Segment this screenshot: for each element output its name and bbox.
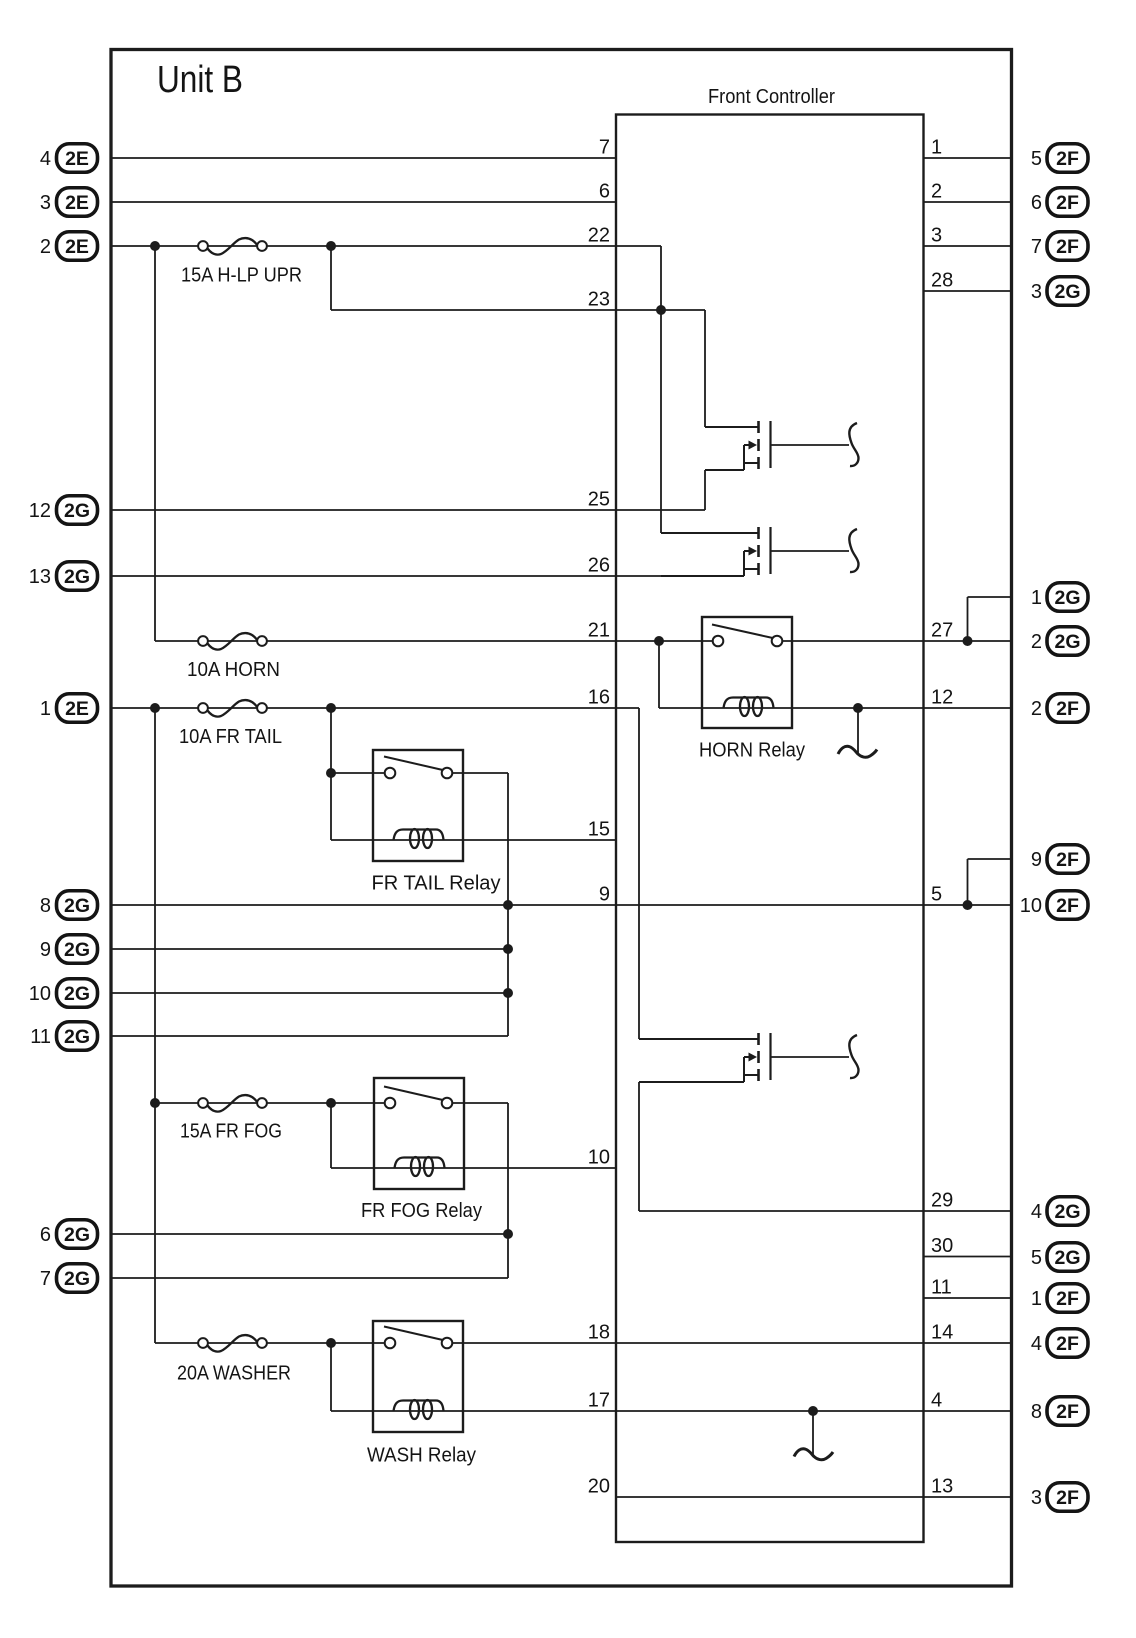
- svg-text:8: 8: [40, 895, 51, 917]
- svg-text:2E: 2E: [65, 192, 89, 214]
- svg-text:5: 5: [931, 884, 942, 906]
- ground stub below wire12: [857, 708, 859, 753]
- junction 9-2G / bus 508: [503, 944, 513, 954]
- relay K4 coil line pin17/pin4 to 8-2F: [331, 1410, 1012, 1412]
- relay K1 HORN Relay box: [702, 617, 792, 728]
- svg-text:2G: 2G: [64, 1224, 90, 1246]
- wire pin6 from 3-2E: [111, 201, 616, 203]
- svg-text:13: 13: [931, 1476, 953, 1498]
- load squiggle at Q3 gate: [849, 1035, 858, 1078]
- relay K4 WASH Relay box: [373, 1321, 463, 1432]
- transistor Q1 (MOSFET): [705, 426, 759, 428]
- svg-text:3: 3: [931, 225, 942, 247]
- svg-text:2: 2: [1031, 698, 1042, 720]
- wire pin12 external to 2-2F: [924, 707, 1012, 709]
- junction 6-2G / bus 508: [503, 1229, 513, 1239]
- svg-text:10: 10: [29, 983, 51, 1005]
- wire FR TAIL switch out: [452, 772, 508, 774]
- wire drop bus 508 from FR TAIL switch: [507, 773, 509, 1036]
- wire from 11-2G: [111, 1035, 508, 1037]
- wire pin21 fuse side: [155, 640, 713, 642]
- svg-text:2G: 2G: [64, 1268, 90, 1290]
- wire riser 705 Q1 source to pin25: [704, 470, 706, 510]
- svg-text:2G: 2G: [1054, 1247, 1080, 1269]
- svg-text:2F: 2F: [1056, 849, 1079, 871]
- svg-text:10: 10: [588, 1147, 610, 1169]
- wire pin25 from 12-2G: [111, 509, 705, 511]
- svg-text:9: 9: [40, 939, 51, 961]
- svg-text:2F: 2F: [1056, 698, 1079, 720]
- fuse F4 15A FR FOG: [208, 1095, 258, 1112]
- svg-text:26: 26: [588, 555, 610, 577]
- svg-text:2: 2: [931, 181, 942, 203]
- relay K4 switch: [384, 1327, 445, 1341]
- svg-text:7: 7: [1031, 236, 1042, 258]
- wire riser 331 to pin23: [330, 246, 332, 310]
- svg-text:2E: 2E: [65, 236, 89, 258]
- svg-text:FR FOG Relay: FR FOG Relay: [361, 1200, 482, 1222]
- svg-text:3: 3: [1031, 281, 1042, 303]
- junction on wire 22 at fuse feed: [150, 241, 160, 251]
- svg-text:10: 10: [1020, 895, 1042, 917]
- junction wire27 branch to 1-2G: [963, 636, 973, 646]
- svg-text:16: 16: [588, 687, 610, 709]
- wire riser 331 to WASH coil: [330, 1343, 332, 1411]
- junction wire23 / riser-661: [656, 305, 666, 315]
- Front Controller box U1: [616, 115, 924, 1543]
- svg-text:2F: 2F: [1056, 1487, 1079, 1509]
- svg-text:Unit B: Unit B: [157, 59, 243, 101]
- wire from 6-2G: [111, 1233, 508, 1235]
- svg-text:22: 22: [588, 225, 610, 247]
- wire to 1-2G: [968, 596, 1012, 598]
- wire riser 661 from pin22 to Q2 drain: [660, 246, 662, 533]
- relay K1 coil line to pin12: [659, 707, 924, 709]
- wire pin9/pin5 through controller from 8-2G: [111, 904, 1012, 906]
- svg-text:9: 9: [1031, 849, 1042, 871]
- wire to 9-2F: [968, 858, 1012, 860]
- wire pin26 from 13-2G to Q2 source: [111, 575, 744, 577]
- wire pin1 to 5-2F: [924, 157, 1012, 159]
- wire riser 638 from wire16 to Q3 drain: [638, 708, 640, 1039]
- junction 10-2G / bus 508: [503, 988, 513, 998]
- svg-text:2G: 2G: [64, 895, 90, 917]
- svg-text:2F: 2F: [1056, 148, 1079, 170]
- wire FR TAIL switch feed: [331, 772, 384, 774]
- relay K3 switch: [384, 1087, 445, 1101]
- svg-text:23: 23: [588, 289, 610, 311]
- svg-text:2F: 2F: [1056, 1401, 1079, 1423]
- wire pin28 to 3-2G: [924, 290, 1012, 292]
- svg-text:17: 17: [588, 1390, 610, 1412]
- svg-text:1: 1: [1031, 587, 1042, 609]
- wire vertical feed bus 1-2E: [154, 708, 156, 1343]
- wire pin30 to 5-2G: [924, 1256, 1012, 1258]
- wire riser 638 Q3 source to pin29: [638, 1082, 640, 1211]
- relay K2 coil: [394, 830, 444, 841]
- wire pin16 from 1-2E through fuse: [111, 707, 639, 709]
- svg-text:Front Controller: Front Controller: [708, 86, 835, 108]
- wire pin20/pin13 to 3-2F: [616, 1496, 1012, 1498]
- svg-text:4: 4: [931, 1390, 942, 1412]
- load squiggle at Q1 gate: [849, 423, 858, 466]
- svg-text:15A H-LP UPR: 15A H-LP UPR: [181, 265, 302, 287]
- wire FR FOG switch out: [452, 1102, 508, 1104]
- junction wire17 ground branch: [808, 1406, 818, 1416]
- wire drop bus 508 from FR FOG switch: [507, 1103, 509, 1278]
- junction FR FOG branch to coil: [326, 1098, 336, 1108]
- fuse F5 20A WASHER: [208, 1335, 258, 1352]
- svg-text:21: 21: [588, 620, 610, 642]
- transistor Q2 (MOSFET): [661, 532, 759, 534]
- relay K3 coil: [395, 1158, 445, 1169]
- relay K1 coil: [724, 698, 774, 709]
- svg-text:2F: 2F: [1056, 895, 1079, 917]
- wire pin11 to 1-2F: [924, 1297, 1012, 1299]
- wire riser 331 to FR FOG coil: [330, 1103, 332, 1168]
- svg-text:6: 6: [1031, 192, 1042, 214]
- wire vertical bus from 2-2E fuse feed: [154, 246, 156, 641]
- relay K2 coil line to pin15: [331, 839, 616, 841]
- svg-text:25: 25: [588, 489, 610, 511]
- svg-text:2E: 2E: [65, 148, 89, 170]
- svg-text:2: 2: [40, 236, 51, 258]
- relay K4 coil: [394, 1401, 444, 1412]
- svg-text:2F: 2F: [1056, 236, 1079, 258]
- svg-text:10A FR TAIL: 10A FR TAIL: [179, 726, 282, 748]
- svg-text:5: 5: [1031, 148, 1042, 170]
- wire 15A FR FOG fuse row: [155, 1102, 384, 1104]
- svg-text:3: 3: [40, 192, 51, 214]
- svg-text:HORN Relay: HORN Relay: [699, 740, 805, 762]
- svg-text:2E: 2E: [65, 698, 89, 720]
- svg-text:6: 6: [599, 181, 610, 203]
- ground chassis mark 2: [794, 1449, 833, 1460]
- ground stub below wire17: [812, 1411, 814, 1455]
- svg-text:29: 29: [931, 1190, 953, 1212]
- wire pin2 to 6-2F: [924, 201, 1012, 203]
- svg-text:5: 5: [1031, 1247, 1042, 1269]
- junction fuse feed FR FOG: [150, 1098, 160, 1108]
- svg-text:27: 27: [931, 620, 953, 642]
- svg-text:2: 2: [1031, 631, 1042, 653]
- wire pin22 from 2-2E through fuse: [111, 245, 661, 247]
- relay K2 switch: [384, 757, 445, 771]
- svg-text:4: 4: [1031, 1201, 1042, 1223]
- svg-text:7: 7: [40, 1268, 51, 1290]
- svg-text:2G: 2G: [64, 566, 90, 588]
- relay K3 coil line to pin10: [331, 1167, 616, 1169]
- svg-text:2G: 2G: [1054, 631, 1080, 653]
- wire pin7 from 4-2E: [111, 157, 616, 159]
- junction riser / FR TAIL switch feed: [326, 768, 336, 778]
- wire riser 331 to FR TAIL relay: [330, 708, 332, 840]
- wire riser 705 from pin23 to Q1 drain: [704, 310, 706, 427]
- svg-text:WASH Relay: WASH Relay: [367, 1445, 476, 1467]
- svg-text:2G: 2G: [1054, 281, 1080, 303]
- svg-text:20A WASHER: 20A WASHER: [177, 1363, 291, 1385]
- wire riser 659 to HORN coil: [658, 641, 660, 708]
- svg-text:7: 7: [599, 137, 610, 159]
- svg-text:10A HORN: 10A HORN: [187, 659, 280, 681]
- svg-text:2G: 2G: [64, 939, 90, 961]
- wire from 7-2G: [111, 1277, 508, 1279]
- svg-text:28: 28: [931, 270, 953, 292]
- svg-text:13: 13: [29, 566, 51, 588]
- load squiggle at Q2 gate: [849, 529, 858, 572]
- svg-text:2G: 2G: [64, 500, 90, 522]
- junction wire21 / HORN coil riser: [654, 636, 664, 646]
- svg-text:18: 18: [588, 1322, 610, 1344]
- Unit B enclosure box: [111, 50, 1012, 1587]
- svg-text:20: 20: [588, 1476, 610, 1498]
- svg-text:1: 1: [931, 137, 942, 159]
- svg-text:2G: 2G: [1054, 587, 1080, 609]
- svg-text:15: 15: [588, 819, 610, 841]
- svg-text:FR TAIL Relay: FR TAIL Relay: [372, 873, 501, 895]
- junction wire9 / 508 bus: [503, 900, 513, 910]
- svg-text:1: 1: [1031, 1288, 1042, 1310]
- svg-text:12: 12: [29, 500, 51, 522]
- svg-text:4: 4: [40, 148, 51, 170]
- junction wire16 branch to FR TAIL relay: [326, 703, 336, 713]
- wire pin27 external to 2-2G: [924, 640, 1012, 642]
- svg-text:2G: 2G: [1054, 1201, 1080, 1223]
- svg-text:1: 1: [40, 698, 51, 720]
- junction WASHER branch to coil: [326, 1338, 336, 1348]
- svg-text:30: 30: [931, 1235, 953, 1257]
- svg-text:6: 6: [40, 1224, 51, 1246]
- svg-text:11: 11: [30, 1026, 51, 1048]
- svg-text:2G: 2G: [64, 1026, 90, 1048]
- relay K2 FR TAIL Relay box: [373, 750, 463, 861]
- svg-text:3: 3: [1031, 1487, 1042, 1509]
- junction wire12 ground branch: [853, 703, 863, 713]
- svg-text:9: 9: [599, 884, 610, 906]
- wire pin18/pin14 through controller to 4-2F: [452, 1342, 1012, 1344]
- svg-text:2G: 2G: [64, 983, 90, 1005]
- wire from 9-2G: [111, 948, 508, 950]
- fuse F3 10A FR TAIL: [208, 700, 258, 717]
- svg-text:15A FR FOG: 15A FR FOG: [180, 1121, 282, 1143]
- junction on wire 22 branch to pin 23: [326, 241, 336, 251]
- svg-text:2F: 2F: [1056, 1288, 1079, 1310]
- fuse F1 15A H-LP UPR: [208, 238, 258, 255]
- wire branch riser to 9-2F: [967, 859, 969, 905]
- wire 20A WASHER fuse row corner: [155, 1342, 384, 1344]
- relay K3 FR FOG Relay box: [374, 1078, 464, 1189]
- svg-text:8: 8: [1031, 1401, 1042, 1423]
- svg-text:2F: 2F: [1056, 1333, 1079, 1355]
- wire from 10-2G: [111, 992, 508, 994]
- junction wire5 branch to 9-2F: [963, 900, 973, 910]
- svg-text:14: 14: [931, 1322, 953, 1344]
- wire pin29 to 4-2G: [639, 1210, 1012, 1212]
- wire pin3 to 7-2F: [924, 245, 1012, 247]
- ground chassis mark: [838, 746, 877, 757]
- svg-text:11: 11: [931, 1277, 952, 1299]
- relay K1 switch: [712, 625, 775, 639]
- fuse F2 10A HORN: [208, 633, 258, 650]
- svg-text:4: 4: [1031, 1333, 1042, 1355]
- wire branch riser to 1-2G: [967, 597, 969, 641]
- wire pin23: [331, 309, 705, 311]
- svg-text:2F: 2F: [1056, 192, 1079, 214]
- transistor Q3 (MOSFET): [639, 1038, 759, 1040]
- wire pin27 from HORN switch: [782, 640, 924, 642]
- svg-text:12: 12: [931, 687, 953, 709]
- junction wire16 / vertical feed bus: [150, 703, 160, 713]
